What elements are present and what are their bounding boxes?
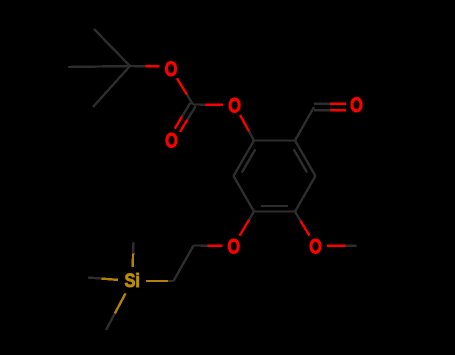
svg-text:O: O bbox=[350, 94, 363, 117]
bond Si-CH3 left bbox=[102, 279, 119, 280]
bond ring C5-O ether bbox=[249, 212, 254, 220]
ring inner double C6=C1 bbox=[242, 149, 256, 172]
svg-text:O: O bbox=[228, 95, 241, 118]
ring bond C5-C6 bbox=[234, 176, 255, 212]
bond CH2-Si bbox=[168, 280, 174, 282]
tBu methyl bond 2 (left) bbox=[68, 66, 130, 67]
bond C carbonyl-O2 bbox=[193, 103, 206, 105]
ring inner double C2=C3 bbox=[294, 149, 308, 172]
svg-text:O: O bbox=[309, 235, 322, 258]
bond O2-ring C1 bbox=[240, 115, 249, 131]
bond Si-CH3 down-left bbox=[115, 293, 126, 313]
svg-text:O: O bbox=[165, 58, 178, 81]
bond ring C4-O methoxy bbox=[295, 212, 301, 221]
ring bond C6-C1 bbox=[234, 141, 255, 177]
ring bond C2-C3 bbox=[295, 141, 316, 177]
aldehyde C=O double bond bbox=[314, 109, 330, 111]
bond ring C2-CHO carbon bbox=[295, 107, 314, 141]
bond CH2-CH2 bbox=[174, 246, 194, 282]
svg-text:Si: Si bbox=[124, 270, 140, 292]
svg-text:O: O bbox=[227, 235, 240, 258]
bond O-CH2 bbox=[207, 244, 222, 246]
svg-text:O: O bbox=[165, 130, 178, 153]
carbonate C=O double bond bbox=[182, 103, 190, 117]
bond Si-CH3 up bbox=[131, 253, 134, 267]
ring bond C4-C5 bbox=[254, 210, 295, 212]
tBu methyl bond 3 (down-left) bbox=[93, 66, 130, 107]
bond O-CH3 methoxy bbox=[327, 244, 345, 246]
ring bond C3-C4 bbox=[295, 176, 316, 212]
ring bond C1-C2 bbox=[254, 139, 295, 141]
bond CQ-O1 bbox=[130, 65, 145, 68]
ring inner double C4=C5 bbox=[261, 205, 288, 207]
bond O1-C carbonyl bbox=[177, 78, 187, 94]
tBu methyl bond 1 (up-left) bbox=[94, 29, 130, 66]
